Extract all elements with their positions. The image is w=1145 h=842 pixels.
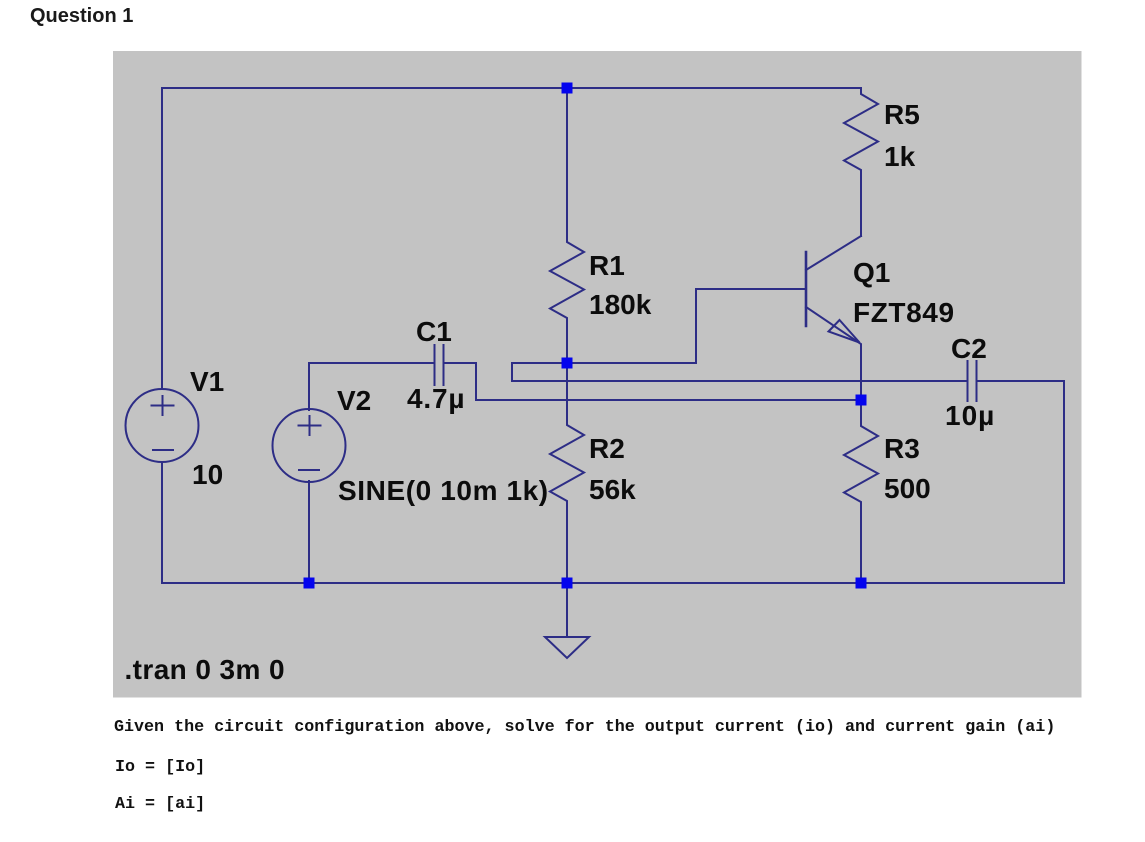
voltage source V2 circle (273, 409, 346, 482)
ground stub (566, 583, 568, 637)
wire top rail (162, 87, 861, 89)
wire bottom rail (162, 582, 1064, 584)
transistor Q1 collector (806, 236, 861, 270)
svg-text:R1: R1 (589, 250, 625, 281)
wire C2 right to bottom rail (977, 381, 1065, 583)
svg-text:10µ: 10µ (945, 400, 995, 431)
svg-text:R5: R5 (884, 99, 920, 130)
capacitor C1 plates (435, 345, 444, 385)
resistor R2 (550, 363, 584, 583)
svg-text:.tran 0 3m 0: .tran 0 3m 0 (125, 654, 285, 685)
capacitor C2 plates (968, 361, 977, 401)
node V2 bottom (304, 578, 315, 589)
question body text (114, 720, 1055, 736)
wire left rail lower (161, 462, 163, 583)
svg-text:V1: V1 (190, 366, 224, 397)
resistor R5 (844, 88, 878, 236)
wire V2 bottom vertical (308, 481, 310, 583)
resistor R3 (844, 400, 878, 583)
node at top rail / R1 (562, 83, 573, 94)
node emitter / R3 top (856, 395, 867, 406)
V1 minus sign (153, 449, 173, 451)
wire base node to Q1 base (567, 289, 806, 363)
svg-text:V2: V2 (337, 385, 371, 416)
gray schematic background (113, 51, 1082, 698)
answer Ai (115, 797, 205, 813)
wire left rail upper (161, 88, 163, 389)
transistor Q1 emitter (806, 307, 861, 400)
svg-text:56k: 56k (589, 474, 636, 505)
answer Io (115, 760, 205, 776)
wire C1 right to emitter node (444, 363, 862, 400)
node ground rail center (562, 578, 573, 589)
transistor Q1 emitter arrow (829, 320, 860, 343)
svg-text:C2: C2 (951, 333, 987, 364)
svg-text:SINE(0 10m 1k): SINE(0 10m 1k) (338, 475, 549, 506)
svg-text:R3: R3 (884, 433, 920, 464)
wire base node left U-turn (512, 363, 968, 381)
svg-text:500: 500 (884, 473, 931, 504)
svg-text:FZT849: FZT849 (853, 297, 955, 328)
wire V2 top vertical (308, 363, 310, 410)
svg-text:C1: C1 (416, 316, 452, 347)
svg-text:1k: 1k (884, 141, 916, 172)
V2 minus sign (299, 469, 319, 471)
V1 plus sign (152, 396, 174, 415)
transistor Q1 base bar (805, 252, 808, 326)
question header (30, 5, 133, 28)
svg-text:180k: 180k (589, 289, 652, 320)
svg-text:10: 10 (192, 459, 223, 490)
svg-text:R2: R2 (589, 433, 625, 464)
svg-text:4.7µ: 4.7µ (407, 383, 465, 414)
wire V2 to C1 (309, 362, 435, 364)
ground symbol (545, 637, 589, 658)
resistor R1 (550, 88, 584, 363)
node base bias (562, 358, 573, 369)
voltage source V1 circle (126, 389, 199, 462)
svg-text:Q1: Q1 (853, 257, 890, 288)
node R3 bottom (856, 578, 867, 589)
V2 plus sign (299, 416, 321, 435)
